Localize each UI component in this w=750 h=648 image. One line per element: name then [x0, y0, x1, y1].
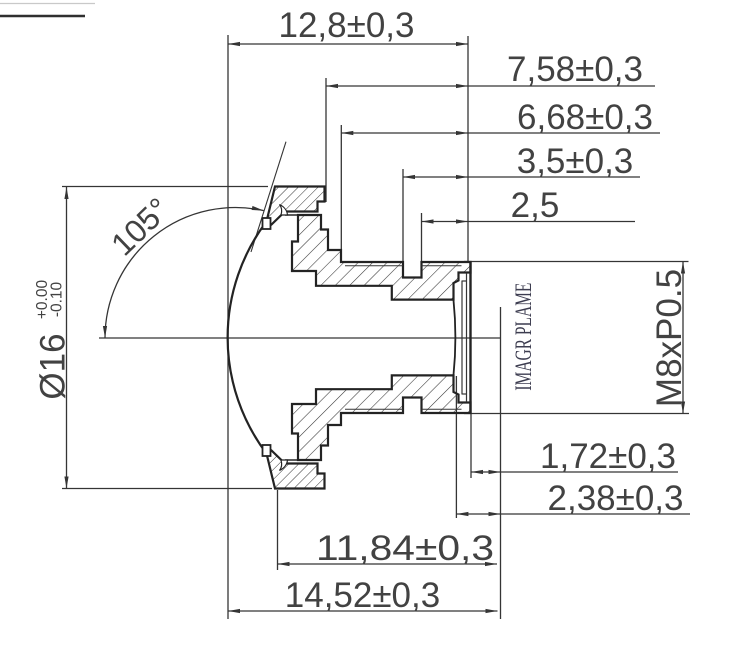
- svg-text:2,5: 2,5: [511, 186, 560, 225]
- svg-text:Ø16: Ø16: [34, 333, 73, 399]
- svg-text:M8xP0.5: M8xP0.5: [650, 269, 689, 407]
- svg-text:2,38±0,3: 2,38±0,3: [548, 479, 684, 518]
- svg-text:IMAGR PLAME: IMAGR PLAME: [511, 283, 536, 391]
- svg-text:1,72±0,3: 1,72±0,3: [540, 437, 676, 476]
- svg-text:-0.10: -0.10: [49, 281, 66, 317]
- svg-text:11,84±0,3: 11,84±0,3: [316, 529, 494, 568]
- svg-text:14,52±0,3: 14,52±0,3: [285, 576, 440, 615]
- svg-text:6,68±0,3: 6,68±0,3: [517, 98, 653, 137]
- svg-text:7,58±0,3: 7,58±0,3: [507, 50, 643, 89]
- svg-text:3,5±0,3: 3,5±0,3: [517, 142, 634, 181]
- svg-text:12,8±0,3: 12,8±0,3: [279, 6, 415, 45]
